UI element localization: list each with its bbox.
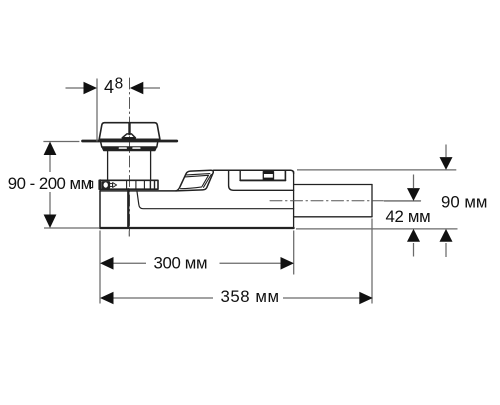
centerline drain vertical axis [129, 78, 131, 236]
cap stem [128, 124, 130, 134]
swoosh inner diagonal [204, 175, 212, 188]
riser pipe walls [108, 151, 151, 180]
outlet pipe right end [371, 185, 373, 217]
clamp band left cap [99, 180, 101, 189]
svg-text:90 - 200 мм: 90 - 200 мм [8, 174, 92, 193]
arrow 300 left [100, 257, 114, 270]
inner sump contour [137, 191, 294, 209]
pipe right extension line [371, 219, 373, 304]
svg-text:358 мм: 358 мм [221, 287, 280, 306]
dim 90mm bottom shaft [445, 243, 447, 257]
clip box [263, 172, 273, 180]
dim 358 shaft right [283, 297, 360, 299]
arrow 90mm down [440, 157, 453, 170]
svg-text:90 мм: 90 мм [441, 192, 487, 211]
plateau left recess wall and floor line B [229, 170, 294, 190]
divider at right of shelf [284, 170, 286, 180]
collar dark bar [102, 147, 157, 151]
cap outline [99, 123, 160, 140]
arrow 48 right (tip on centerline) [130, 82, 144, 95]
flange bar [83, 140, 177, 143]
svg-text:8: 8 [115, 76, 124, 93]
body bottom [100, 227, 294, 229]
clamp band [99, 180, 158, 189]
swoosh inner window [181, 175, 209, 188]
right top extension line [297, 169, 456, 171]
dim 90mm top shaft [445, 145, 447, 158]
clamp screw head blob [102, 181, 111, 189]
svg-text:300 мм: 300 мм [154, 254, 208, 273]
outlet pipe top [294, 184, 372, 186]
svg-text:4: 4 [104, 77, 114, 97]
left bottom extension line [99, 231, 101, 304]
collar sides [101, 143, 158, 147]
cap knob base plate [122, 138, 136, 140]
outlet pipe bottom [294, 216, 372, 218]
svg-text:42 мм: 42 мм [386, 207, 431, 226]
dim 90-200 shaft upper [49, 154, 51, 172]
right bottom extension line [296, 228, 458, 230]
outlet centerline [270, 200, 383, 202]
arrow 48 left [84, 82, 98, 95]
centerline end segment [384, 200, 421, 202]
arrow 90-200 down [44, 215, 57, 229]
dim 300 shaft right [220, 262, 282, 264]
cap knob [122, 134, 135, 138]
arrow 90mm up [440, 229, 453, 242]
swoosh inner top line [187, 174, 210, 175]
body right extension line [293, 231, 295, 275]
dim 90-200 bottom extension line [44, 227, 100, 229]
dim 48 left shaft [66, 87, 85, 89]
clamp screw cone [113, 183, 117, 188]
center stub extension [128, 231, 130, 237]
swoosh outer [176, 170, 213, 191]
dim 42mm top shaft [413, 175, 415, 189]
clamp screw tip rect [90, 181, 93, 187]
dim 90-200 top extension line [43, 141, 79, 143]
dim 358 shaft left [113, 297, 213, 299]
collar bar slots [119, 147, 139, 149]
dim 48 right shaft [143, 87, 160, 89]
clamp dividers [127, 180, 145, 189]
body left edge [99, 191, 101, 228]
arrow 300 right [281, 257, 295, 270]
plateau top line [214, 170, 294, 173]
dim 42mm bottom shaft [413, 243, 415, 257]
arrow 358 left [100, 292, 114, 305]
dim 90-200 shaft lower [49, 192, 51, 216]
drain pipe inside body [127, 189, 129, 227]
body right edge [293, 172, 295, 229]
arrow 358 right [359, 292, 373, 305]
dim 48 left extension line [96, 79, 98, 142]
body top-left surface line [100, 190, 176, 192]
clamp right bracket [150, 180, 154, 189]
dim 300 shaft left [113, 262, 146, 264]
arrow 42mm up [407, 229, 420, 242]
recess shelf wall V2 and line C [240, 170, 285, 180]
line C thick part [240, 179, 285, 181]
arrow 42mm down [407, 188, 420, 201]
arrow 90-200 up [44, 142, 57, 156]
